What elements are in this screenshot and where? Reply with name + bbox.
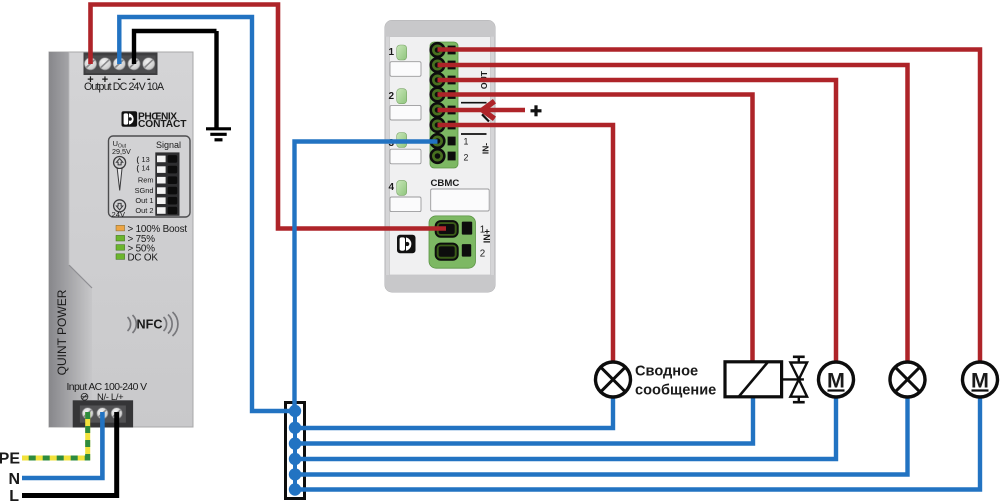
distribution terminal node 1 bbox=[289, 405, 301, 417]
svg-text:Out 1: Out 1 bbox=[135, 196, 153, 205]
LED legend DC OK bbox=[116, 253, 158, 264]
label + at OUT5 arrow bbox=[531, 105, 542, 116]
wire red PSU L+ to CBMC IN+ bbox=[91, 5, 447, 229]
IN- terminal 2 bbox=[431, 149, 456, 163]
OUT terminal strip (green) bbox=[430, 42, 458, 168]
lamp E1 (indicator) bbox=[596, 362, 631, 397]
channel 3 status window bbox=[390, 149, 421, 164]
channel 4 LED button bbox=[397, 180, 407, 195]
wire black PSU minus to ground bbox=[134, 31, 217, 64]
device marking window bbox=[431, 189, 490, 211]
channel 2 status window bbox=[390, 105, 421, 120]
OUT terminal 1 bbox=[431, 43, 456, 57]
svg-text:Rem: Rem bbox=[138, 176, 154, 185]
power supply side strip QUINT POWER bbox=[49, 52, 92, 427]
label Uout 29,5V bbox=[112, 139, 131, 156]
IN- terminal 1 bbox=[431, 134, 456, 148]
screw terminal + (pin 1) bbox=[84, 58, 96, 70]
svg-text:1: 1 bbox=[464, 137, 469, 147]
screw terminal - (pin 5) bbox=[143, 58, 155, 70]
svg-text:L: L bbox=[9, 488, 19, 503]
breaker contact symbol upper bbox=[461, 103, 489, 122]
label Signal bbox=[156, 140, 181, 150]
NFC logo bbox=[128, 312, 178, 336]
svg-text:1: 1 bbox=[388, 47, 394, 58]
svg-text:SGnd: SGnd bbox=[135, 186, 154, 195]
svg-text:IN+: IN+ bbox=[482, 229, 492, 243]
screw terminal + (pin 2) bbox=[99, 58, 111, 70]
IN+ terminal 1 bbox=[436, 221, 472, 237]
potentiometer wedge bbox=[117, 169, 122, 191]
label IN+ (rotated) bbox=[482, 229, 492, 243]
label CBMC bbox=[431, 178, 460, 189]
wire blue CBMC IN- to distribution block bbox=[295, 142, 438, 412]
LED legend boost bbox=[116, 224, 187, 235]
distribution block bus bar bbox=[293, 411, 297, 490]
svg-text:Out 2: Out 2 bbox=[135, 206, 153, 215]
wire blue motor M1 return bbox=[296, 396, 836, 459]
IN+ terminal 2 bbox=[436, 244, 471, 260]
label Сводное сообщение bbox=[635, 364, 716, 399]
IN+ terminal block (green) bbox=[429, 216, 476, 268]
motor M2 bbox=[963, 362, 998, 397]
adjust up arrow icon bbox=[114, 157, 126, 169]
svg-text:IN-: IN- bbox=[481, 143, 491, 154]
channel 2 LED button bbox=[397, 89, 407, 104]
breaker contact symbol lower bbox=[461, 133, 487, 135]
distribution terminal block body bbox=[286, 403, 305, 499]
signal connector block bbox=[155, 152, 179, 215]
channel label 1 bbox=[388, 47, 394, 58]
screw terminal L input bbox=[111, 408, 122, 419]
polarity labels + + - - - bbox=[87, 73, 151, 86]
channel 1 LED button bbox=[397, 45, 407, 60]
svg-text:N: N bbox=[8, 471, 20, 488]
AC input terminal block X2 bbox=[73, 400, 133, 427]
distribution terminal node 6 bbox=[289, 483, 301, 495]
svg-text:2: 2 bbox=[464, 153, 469, 163]
label QUINT POWER bbox=[55, 289, 69, 375]
signal pin labels 13 14 Rem SGnd Out1 Out2 bbox=[135, 155, 154, 215]
svg-text:29,5V: 29,5V bbox=[112, 147, 131, 156]
svg-text:14: 14 bbox=[142, 163, 150, 172]
OUT terminal 3 bbox=[431, 73, 456, 87]
wire red OUT2 to lamp E2 bbox=[438, 65, 908, 363]
label L bbox=[9, 488, 19, 503]
channel 3 LED button bbox=[397, 133, 407, 148]
channel 4 status window bbox=[390, 197, 421, 212]
wire blue motor M2 return bbox=[296, 396, 980, 490]
pin label IN- 2 bbox=[464, 153, 469, 163]
channel 1 status window bbox=[390, 62, 421, 77]
label PE bbox=[0, 451, 20, 468]
wire L black input bbox=[22, 412, 117, 496]
svg-text:CBMC: CBMC bbox=[431, 178, 460, 189]
screw terminal - (pin 4) bbox=[128, 58, 140, 70]
svg-text:DC OK: DC OK bbox=[128, 253, 159, 264]
valve symbol Y1 bbox=[782, 357, 808, 402]
svg-text:M: M bbox=[827, 369, 845, 393]
label N bbox=[8, 471, 20, 488]
label OUT (rotated) bbox=[479, 70, 489, 89]
distribution terminal node 3 bbox=[289, 437, 301, 449]
channel label 2 bbox=[388, 91, 394, 102]
pin label IN+ 2 bbox=[480, 249, 485, 260]
svg-text:сообщение: сообщение bbox=[635, 383, 716, 399]
pin label IN+ 1 bbox=[480, 225, 485, 236]
power supply U1 QUINT POWER body bbox=[49, 52, 193, 427]
wire red OUT5 stub with arrow bbox=[438, 101, 526, 119]
channel label 3 bbox=[388, 138, 394, 149]
lamp E2 (indicator) bbox=[890, 362, 925, 397]
svg-text:Сводное: Сводное bbox=[635, 364, 698, 380]
OUT terminal 6 bbox=[431, 118, 456, 132]
svg-text:NFC: NFC bbox=[137, 318, 163, 332]
svg-text:2: 2 bbox=[480, 249, 485, 260]
DC output terminal block X1 bbox=[84, 53, 158, 76]
wire blue solenoid Y1 return bbox=[296, 397, 753, 444]
svg-text:PE: PE bbox=[0, 451, 20, 468]
solenoid coil Y1 bbox=[725, 362, 782, 397]
wire blue lamp E1 return bbox=[296, 396, 613, 428]
wire red OUT6 to lamp E1 bbox=[438, 125, 614, 363]
OUT terminal 5 bbox=[431, 103, 456, 117]
screw terminal N input bbox=[97, 408, 108, 419]
LED legend 75% bbox=[116, 234, 155, 245]
svg-text:4: 4 bbox=[388, 182, 394, 193]
svg-text:M: M bbox=[971, 369, 989, 393]
distribution terminal node 5 bbox=[289, 468, 301, 480]
wire PE yellow-green bbox=[22, 412, 88, 458]
channel label 4 bbox=[388, 182, 394, 193]
label IN- (rotated) bbox=[481, 143, 491, 154]
wire red OUT3 to motor M1 bbox=[438, 80, 837, 363]
OUT terminal 2 bbox=[431, 58, 456, 72]
wire blue PSU minus to distribution block bbox=[119, 17, 294, 411]
svg-text:QUINT POWER: QUINT POWER bbox=[55, 289, 69, 375]
svg-text:24V: 24V bbox=[112, 210, 126, 219]
OUT terminal 4 bbox=[431, 88, 456, 102]
svg-text:Signal: Signal bbox=[156, 140, 181, 150]
value label Output DC 24V 10A bbox=[84, 81, 165, 93]
phoenix contact icon on CBMC bbox=[397, 235, 416, 254]
ground symbol bbox=[206, 31, 231, 140]
wire red OUT4 to solenoid valve Y1 bbox=[438, 95, 753, 363]
motor M1 bbox=[819, 362, 854, 397]
wire N blue input bbox=[22, 412, 102, 478]
pin label IN- 1 bbox=[464, 137, 469, 147]
wire blue lamp E2 return bbox=[296, 396, 908, 475]
logo PHOENIX CONTACT bbox=[122, 111, 188, 130]
LED legend 50% bbox=[116, 243, 155, 254]
label 24V bbox=[112, 210, 126, 219]
signal panel box bbox=[109, 136, 191, 217]
adjust down arrow icon bbox=[114, 200, 126, 212]
screw terminal - (pin 3) bbox=[113, 58, 125, 70]
value label Input AC 100-240 V bbox=[67, 382, 148, 402]
screw terminal PE input bbox=[82, 408, 93, 419]
svg-text:Output DC 24V 10A: Output DC 24V 10A bbox=[84, 81, 165, 93]
svg-text:2: 2 bbox=[388, 91, 394, 102]
svg-text:CONTACT: CONTACT bbox=[138, 119, 187, 130]
wire red OUT1 to motor M2 bbox=[438, 50, 981, 364]
distribution terminal node 2 bbox=[289, 422, 301, 434]
circuit breaker module CBMC body bbox=[385, 20, 495, 292]
distribution terminal node 4 bbox=[289, 453, 301, 465]
